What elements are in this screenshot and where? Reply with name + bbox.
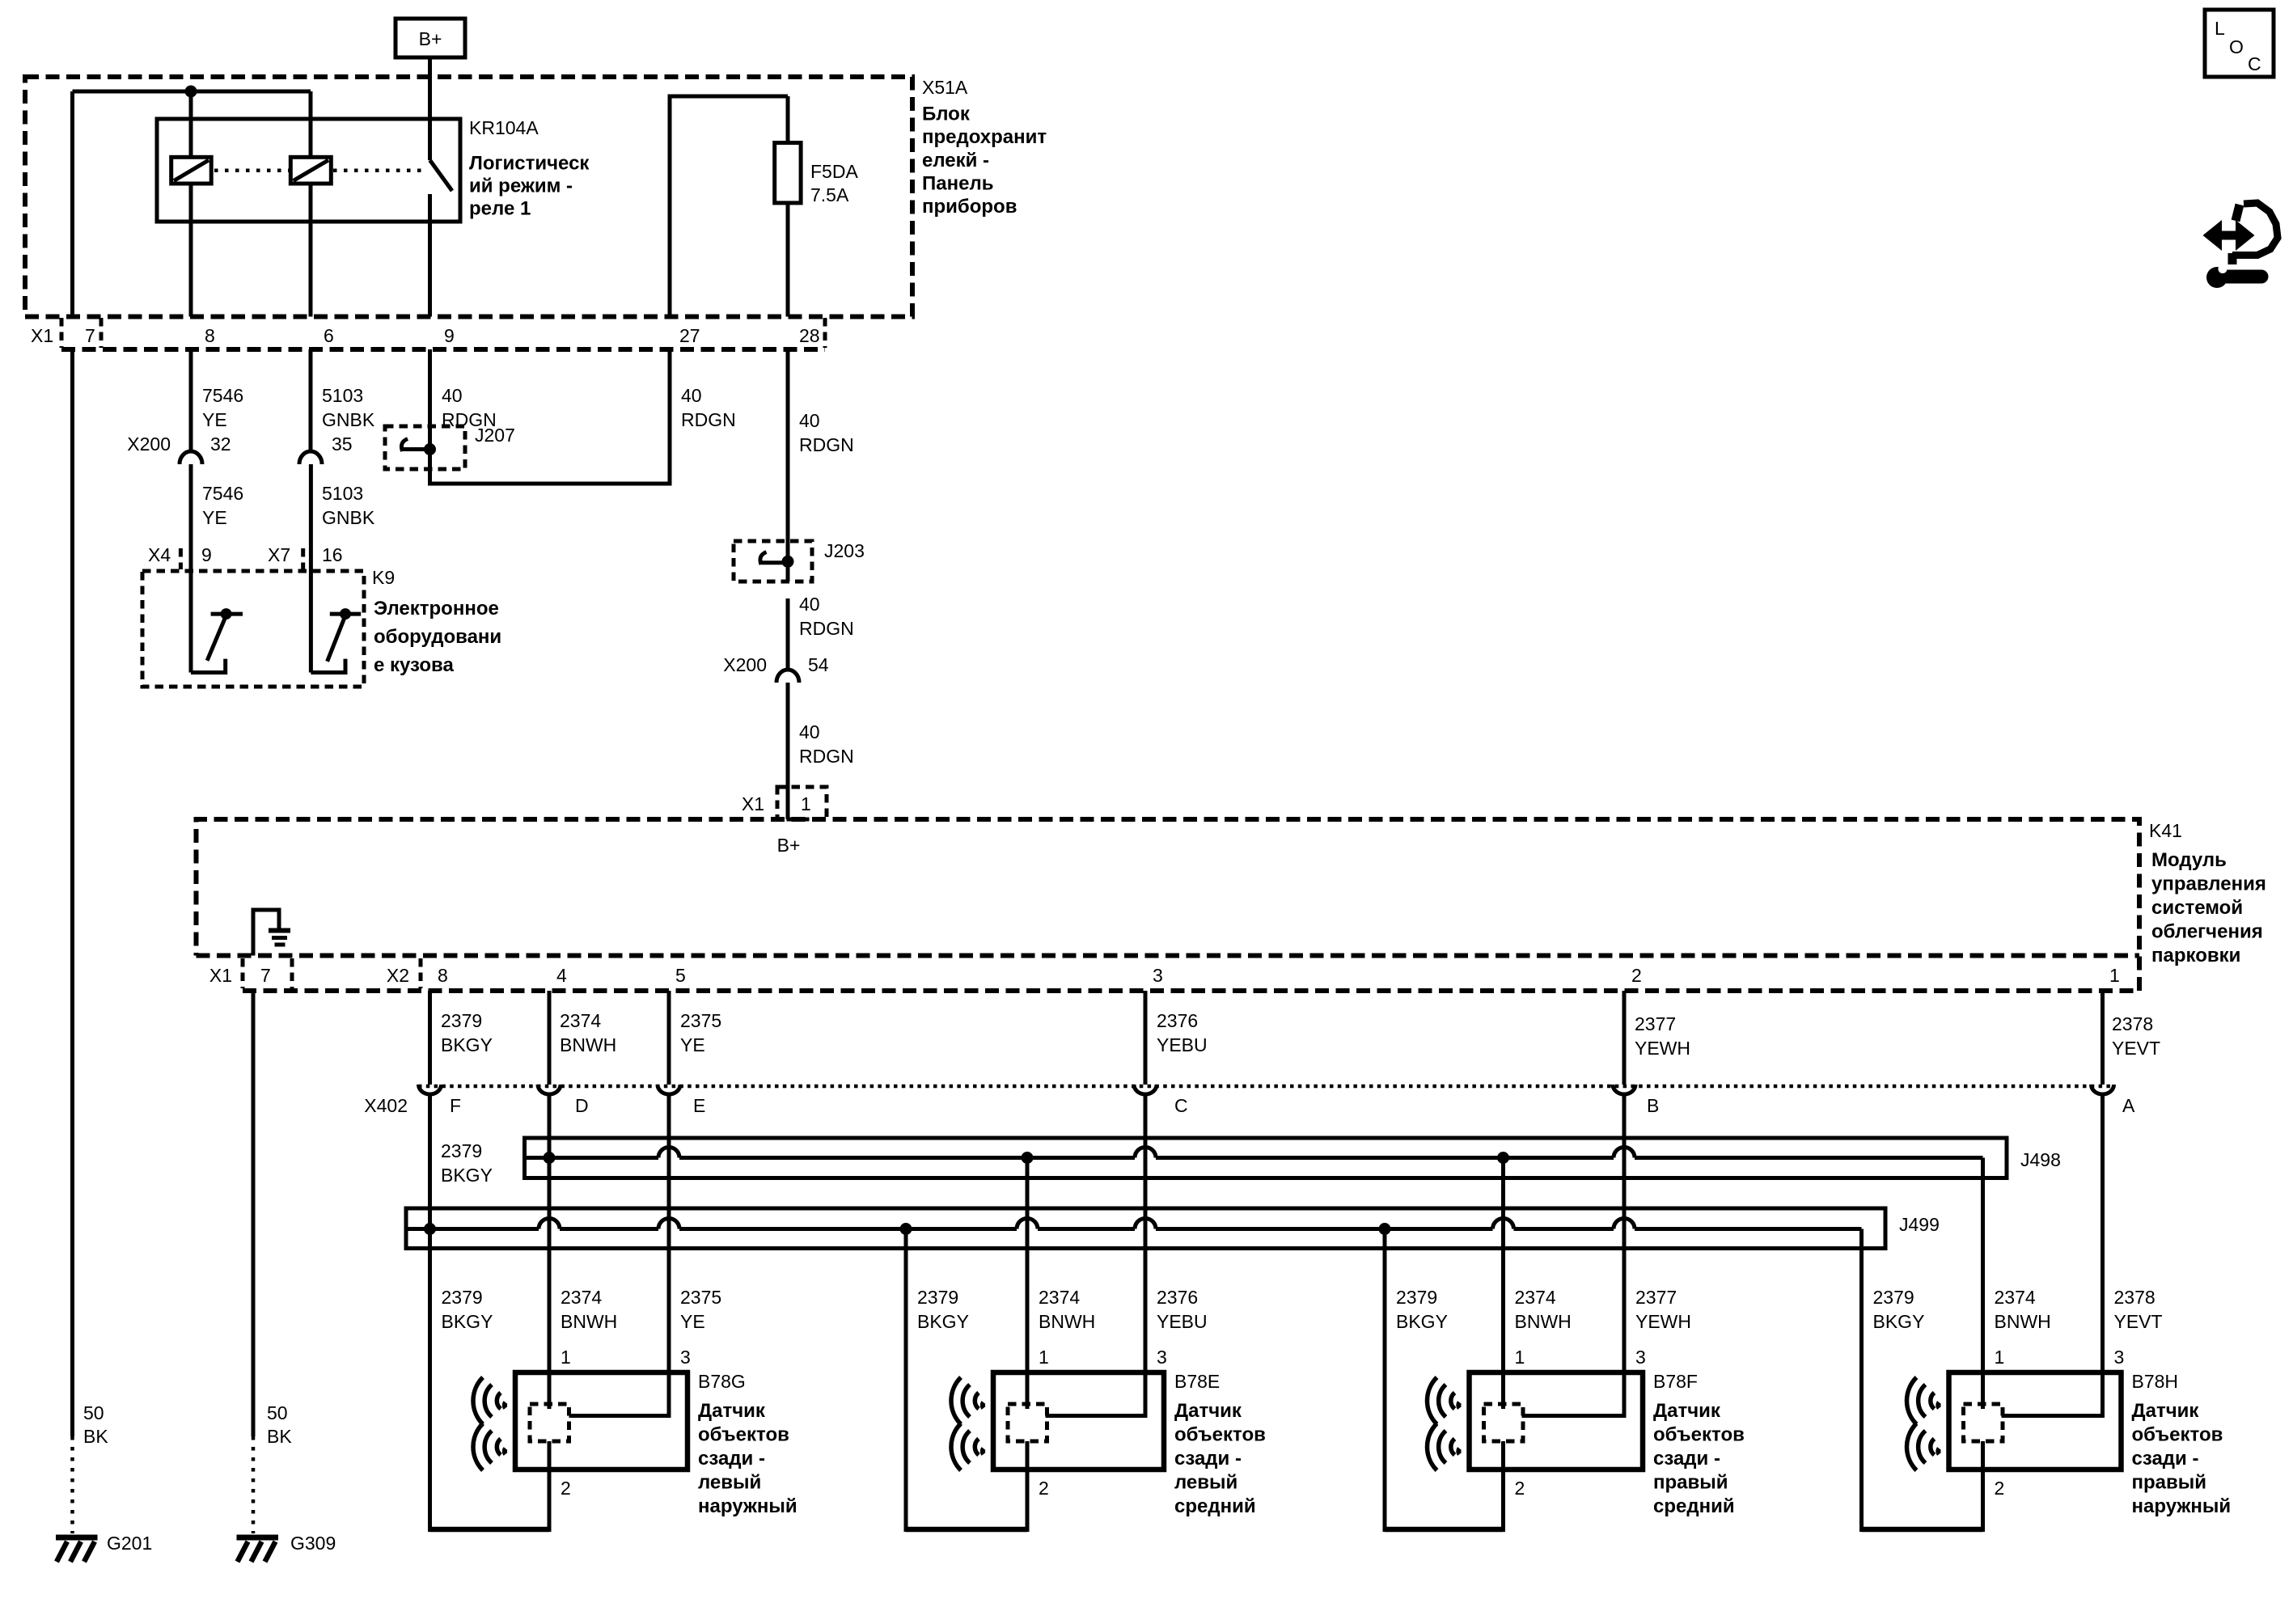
svg-text:парковки: парковки — [2151, 945, 2240, 966]
sensor B78E pin2 wire — [1026, 1441, 1030, 1532]
svg-text:K41: K41 — [2149, 820, 2182, 841]
svg-text:Модуль: Модуль — [2151, 849, 2227, 871]
svg-text:BKGY: BKGY — [1396, 1311, 1448, 1332]
J498 junction dot at 1270 — [1022, 1152, 1034, 1164]
sensor B78E description — [1174, 1400, 1266, 1517]
wire label 2374 BNWH — [560, 1010, 616, 1055]
svg-text:X200: X200 — [127, 433, 171, 455]
svg-text:F5DA: F5DA — [810, 161, 858, 182]
J499 bus hop over wire at 679 — [539, 1219, 560, 1229]
relay mechanical link dotted — [214, 168, 421, 172]
svg-text:2376: 2376 — [1157, 1287, 1198, 1308]
svg-text:J499: J499 — [1899, 1214, 1940, 1235]
svg-text:2: 2 — [1039, 1478, 1049, 1499]
J499 bus hop over wire at 1270 — [1017, 1219, 1038, 1229]
wire D to J498 and sensor1 pin1 — [548, 1093, 552, 1409]
svg-text:K9: K9 — [372, 567, 395, 588]
svg-text:G201: G201 — [107, 1533, 152, 1554]
sensor B78G description — [698, 1400, 797, 1517]
connector X402 pin D arc — [538, 1085, 561, 1094]
svg-text:Датчик: Датчик — [2132, 1400, 2200, 1422]
svg-text:Панель: Панель — [922, 173, 993, 195]
svg-text:реле 1: реле 1 — [469, 198, 531, 220]
connector X200 pin 35 arc — [299, 451, 322, 464]
svg-text:X7: X7 — [268, 544, 290, 565]
wire label 50 BK G201 — [83, 1402, 108, 1447]
ground G201 symbol — [56, 1537, 98, 1562]
wire pin 27 riser — [670, 96, 788, 317]
svg-text:сзади -: сзади - — [698, 1448, 765, 1470]
J499 bus hop over wire at 1416 — [1135, 1219, 1156, 1229]
wire label 2375 YE — [680, 1010, 721, 1055]
sensor B78H bottom return wire — [1862, 1527, 1983, 1533]
wire K41 X2 pin 4 — [548, 991, 552, 1085]
sensor B78E bottom return wire — [906, 1527, 1027, 1533]
svg-text:1: 1 — [1515, 1347, 1525, 1368]
svg-text:RDGN: RDGN — [799, 746, 854, 767]
svg-text:B+: B+ — [419, 28, 442, 49]
svg-text:правый: правый — [1653, 1472, 1728, 1494]
svg-text:X1: X1 — [31, 325, 53, 346]
svg-text:GNBK: GNBK — [322, 409, 375, 430]
svg-text:средний: средний — [1653, 1495, 1735, 1517]
svg-text:2374: 2374 — [1515, 1287, 1556, 1308]
svg-text:7546: 7546 — [202, 483, 243, 504]
svg-text:YEBU: YEBU — [1157, 1034, 1208, 1055]
wire J498 end to sensor4 BNWH — [1981, 1158, 1985, 1410]
svg-text:40: 40 — [681, 385, 702, 406]
svg-text:F: F — [450, 1095, 461, 1116]
svg-text:ий режим -: ий режим - — [469, 176, 573, 197]
svg-text:YEWH: YEWH — [1635, 1038, 1690, 1059]
sensor B78H pin2 wire — [1981, 1441, 1985, 1532]
svg-text:G309: G309 — [290, 1533, 336, 1554]
svg-text:2379: 2379 — [442, 1287, 483, 1308]
svg-text:28: 28 — [799, 325, 820, 346]
wire fuse to pin 28 — [786, 203, 790, 317]
wire coil2 to pin 6 — [309, 184, 313, 317]
wire label 2377 YEWH — [1635, 1013, 1690, 1059]
connector X200 row2 labels — [723, 654, 829, 675]
svg-text:L: L — [2215, 18, 2225, 39]
svg-text:1: 1 — [2109, 965, 2120, 986]
svg-text:X200: X200 — [723, 654, 767, 675]
connector X402 pin A arc — [2092, 1085, 2114, 1094]
wire label 2374 BNWH sensor B78H — [1995, 1287, 2051, 1332]
svg-text:3: 3 — [1157, 1347, 1167, 1368]
svg-text:RDGN: RDGN — [681, 409, 736, 430]
J498 junction dot at 679 — [544, 1152, 556, 1164]
K41 pin row bracket dashes — [243, 958, 421, 988]
svg-text:40: 40 — [799, 721, 820, 742]
wire top bus pins 7-8-6 — [73, 90, 311, 94]
svg-text:средний: средний — [1174, 1495, 1256, 1517]
wire label 2374 BNWH sensor B78G — [561, 1287, 617, 1332]
svg-text:D: D — [575, 1095, 589, 1116]
svg-text:BNWH: BNWH — [1039, 1311, 1095, 1332]
sensor B78F inner connector dashed box — [1484, 1404, 1524, 1441]
wire K41 X2 pin 3 — [1144, 991, 1148, 1085]
svg-text:KR104A: KR104A — [469, 117, 539, 138]
svg-text:E: E — [693, 1095, 705, 1116]
svg-text:40: 40 — [799, 594, 820, 615]
splice J203 — [734, 541, 812, 582]
sensor B78H description — [2132, 1400, 2232, 1517]
wire pin 9 down through J207 — [430, 349, 671, 484]
svg-text:наружный: наружный — [698, 1495, 797, 1517]
sensor B78H sonar wave icon — [1906, 1377, 1939, 1470]
svg-text:4: 4 — [556, 965, 567, 986]
wire label 40 RDGN pin9 — [442, 385, 497, 430]
fuse F5DA — [775, 143, 801, 203]
module K41 label — [2149, 820, 2266, 966]
sensor B78E sonar wave icon — [951, 1377, 984, 1470]
svg-text:2377: 2377 — [1635, 1013, 1676, 1034]
splice pack J498 bus wire — [525, 1156, 1983, 1160]
service icon double arrow — [2203, 220, 2255, 251]
wire label 40 RDGN pin28 — [799, 410, 854, 455]
sensor B78F pin2 wire — [1501, 1441, 1505, 1532]
wire J499 to sensor3 BKGY — [1383, 1229, 1387, 1533]
relay KR104A label — [469, 117, 590, 220]
svg-text:X51A: X51A — [922, 77, 968, 98]
wire label 2379 BKGY sensor B78F — [1396, 1287, 1448, 1332]
connector X402 pin B arc — [1613, 1085, 1635, 1094]
svg-text:приборов: приборов — [922, 196, 1017, 218]
svg-text:9: 9 — [201, 544, 212, 565]
svg-text:7546: 7546 — [202, 385, 243, 406]
splice pack J498 box — [525, 1138, 2007, 1178]
svg-text:16: 16 — [322, 544, 343, 565]
svg-text:3: 3 — [1153, 965, 1163, 986]
svg-text:2379: 2379 — [1873, 1287, 1914, 1308]
ground G309 symbol — [237, 1537, 279, 1562]
K41 pin row dashed lines — [197, 956, 2140, 992]
connector X1 pin1 labels — [742, 793, 811, 814]
wire label 2379 BKGY — [441, 1010, 493, 1055]
svg-text:40: 40 — [442, 385, 463, 406]
svg-text:Датчик: Датчик — [1174, 1400, 1242, 1422]
wire pin 6 to X200 pin 35 — [309, 349, 313, 452]
wire B+ to relay switch — [428, 57, 432, 160]
svg-text:2379: 2379 — [441, 1010, 482, 1031]
relay coil 2 — [290, 157, 331, 184]
wire label 2378 YEVT — [2112, 1013, 2160, 1059]
J499 bus hop over wire at 827 — [658, 1219, 679, 1229]
wire label 2377 YEWH sensor B78F — [1635, 1287, 1691, 1332]
svg-text:YE: YE — [680, 1034, 705, 1055]
svg-text:2374: 2374 — [561, 1287, 602, 1308]
wire J499 end to sensor4 BKGY — [1859, 1229, 1864, 1533]
svg-text:50: 50 — [83, 1402, 104, 1423]
svg-text:2: 2 — [1631, 965, 1642, 986]
svg-text:50: 50 — [267, 1402, 288, 1423]
wire X200-32 to K9 — [189, 464, 193, 673]
wire X200-54 to K41 X1-1 — [786, 683, 790, 819]
svg-text:2377: 2377 — [1635, 1287, 1677, 1308]
relay coil 1 — [171, 157, 212, 184]
svg-text:9: 9 — [444, 325, 455, 346]
svg-text:C: C — [1174, 1095, 1188, 1116]
svg-text:Датчик: Датчик — [1653, 1400, 1721, 1422]
svg-text:J207: J207 — [475, 425, 515, 446]
svg-text:YEBU: YEBU — [1157, 1311, 1208, 1332]
wire label 7546 YE — [202, 385, 243, 430]
svg-text:2375: 2375 — [680, 1010, 721, 1031]
svg-text:елекй -: елекй - — [922, 150, 989, 171]
sensor B78G sonar wave icon — [473, 1377, 506, 1470]
connector X200 pin 54 arc — [776, 670, 799, 683]
svg-text:8: 8 — [438, 965, 448, 986]
svg-text:B78F: B78F — [1653, 1371, 1698, 1392]
svg-text:3: 3 — [1635, 1347, 1646, 1368]
connector X200 row1 labels — [127, 433, 352, 455]
switch in K9 left — [191, 608, 243, 672]
svg-text:YE: YE — [202, 507, 227, 528]
connector X4 X7 bracket dashes — [180, 548, 302, 569]
svg-text:левый: левый — [1174, 1472, 1237, 1494]
svg-text:объектов: объектов — [698, 1424, 789, 1446]
svg-text:системой: системой — [2151, 897, 2243, 919]
svg-text:6: 6 — [324, 325, 334, 346]
svg-text:40: 40 — [799, 410, 820, 431]
svg-text:BKGY: BKGY — [1873, 1311, 1925, 1332]
svg-text:2: 2 — [1515, 1478, 1525, 1499]
svg-text:X402: X402 — [364, 1095, 408, 1116]
module K9 dashed box — [142, 571, 364, 687]
wire relay switch to pin 9 — [428, 194, 432, 317]
wire K41 X1-7 ground run — [252, 991, 256, 1436]
svg-text:1: 1 — [561, 1347, 571, 1368]
svg-text:сзади -: сзади - — [1653, 1448, 1720, 1470]
connector X1 pin row lower dashed line — [61, 347, 825, 352]
wire label 2376 YEBU — [1157, 1010, 1208, 1055]
sensor B78G box — [515, 1372, 687, 1470]
svg-text:управления: управления — [2151, 873, 2266, 895]
splice pack J499 box — [406, 1208, 1885, 1249]
svg-text:B: B — [1647, 1095, 1659, 1116]
svg-text:X4: X4 — [148, 544, 171, 565]
svg-text:объектов: объектов — [2132, 1424, 2223, 1446]
svg-text:1: 1 — [1039, 1347, 1049, 1368]
switch in K9 right — [311, 608, 361, 672]
svg-text:X1: X1 — [209, 965, 232, 986]
wire label 2379 BKGY sensor B78H — [1873, 1287, 1925, 1332]
wire K41 X2 pin 1 — [2101, 991, 2105, 1085]
K41 pin labels — [209, 965, 2120, 986]
wire J498 to sensor3 BNWH — [1501, 1158, 1505, 1410]
svg-text:54: 54 — [808, 654, 829, 675]
svg-text:YE: YE — [202, 409, 227, 430]
junction dot on top bus — [185, 86, 197, 98]
svg-text:BNWH: BNWH — [1995, 1311, 2051, 1332]
svg-text:предохранит: предохранит — [922, 126, 1047, 148]
dotted wire to G201 — [70, 1436, 74, 1533]
svg-text:2379: 2379 — [917, 1287, 958, 1308]
svg-text:2374: 2374 — [560, 1010, 601, 1031]
svg-text:B+: B+ — [777, 835, 801, 856]
J498 bus hop over wire at 2008 — [1614, 1148, 1635, 1158]
fuse block X51A dashed box — [25, 77, 912, 317]
svg-text:B78E: B78E — [1174, 1371, 1220, 1392]
svg-text:5103: 5103 — [322, 385, 363, 406]
svg-text:3: 3 — [680, 1347, 691, 1368]
svg-text:7.5A: 7.5A — [810, 184, 849, 205]
wire label 40 RDGN pin27 — [681, 385, 736, 430]
wire pin 28 to J203 — [786, 349, 790, 582]
svg-text:YE: YE — [680, 1311, 705, 1332]
J499 junction dot at 1712 — [1379, 1223, 1391, 1235]
svg-text:2374: 2374 — [1039, 1287, 1080, 1308]
svg-text:J203: J203 — [824, 540, 865, 561]
svg-text:5: 5 — [675, 965, 686, 986]
svg-text:8: 8 — [205, 325, 215, 346]
splice pack J499 bus wire — [406, 1227, 1862, 1231]
connector X4 X7 labels — [148, 544, 343, 565]
LOC legend box — [2205, 10, 2274, 77]
module K9 label — [372, 567, 501, 676]
svg-text:BK: BK — [83, 1426, 108, 1447]
svg-text:сзади -: сзади - — [1174, 1448, 1242, 1470]
J499 junction dot at 1120 — [900, 1223, 912, 1235]
wire label 40 RDGN below J203 — [799, 594, 854, 639]
relay KR104A box — [157, 119, 460, 222]
power node B+ box — [396, 19, 465, 57]
svg-text:2379: 2379 — [1396, 1287, 1437, 1308]
wire coil1 to pin 8 — [189, 184, 193, 317]
svg-text:BKGY: BKGY — [441, 1165, 493, 1186]
sensor B78G inner connector dashed box — [530, 1404, 569, 1441]
svg-text:1: 1 — [801, 793, 811, 814]
wire J499 to sensor2 BKGY — [904, 1229, 908, 1533]
svg-text:объектов: объектов — [1174, 1424, 1266, 1446]
svg-text:X2: X2 — [387, 965, 409, 986]
svg-text:J498: J498 — [2020, 1149, 2061, 1170]
J499 bus hop over wire at 1858.5 — [1493, 1219, 1514, 1229]
svg-text:BK: BK — [267, 1426, 292, 1447]
svg-text:B78G: B78G — [698, 1371, 746, 1392]
ground symbol inside K41 — [253, 910, 290, 956]
svg-text:2374: 2374 — [1995, 1287, 2036, 1308]
svg-text:BNWH: BNWH — [1515, 1311, 1572, 1332]
wire label 2374 BNWH sensor B78F — [1515, 1287, 1572, 1332]
svg-text:левый: левый — [698, 1472, 761, 1494]
svg-text:2378: 2378 — [2112, 1013, 2153, 1034]
splice J207 — [385, 426, 465, 469]
wire K41 X2 pin 5 — [667, 991, 671, 1085]
connector X402 pin F arc — [419, 1085, 442, 1094]
svg-text:2375: 2375 — [680, 1287, 721, 1308]
svg-text:правый: правый — [2132, 1472, 2207, 1494]
svg-text:A: A — [2122, 1095, 2135, 1116]
J499 bus hop over wire at 2008 — [1614, 1219, 1635, 1229]
svg-text:BKGY: BKGY — [917, 1311, 969, 1332]
wire label 2374 BNWH sensor B78E — [1039, 1287, 1095, 1332]
svg-text:B78H: B78H — [2132, 1371, 2179, 1392]
svg-text:YEVT: YEVT — [2114, 1311, 2163, 1332]
svg-text:1: 1 — [1995, 1347, 2005, 1368]
wire label 2379 BKGY under F — [441, 1140, 493, 1186]
wire J498 to sensor2 BNWH — [1026, 1158, 1030, 1410]
svg-text:RDGN: RDGN — [799, 434, 854, 455]
wire ground run from pin 7 — [70, 349, 74, 1436]
J498 bus hop over wire at 1416 — [1135, 1148, 1156, 1158]
wire label 2378 YEVT sensor B78H — [2114, 1287, 2163, 1332]
sensor B78H inner connector dashed box — [1964, 1404, 2003, 1441]
svg-text:GNBK: GNBK — [322, 507, 375, 528]
svg-text:объектов: объектов — [1653, 1424, 1745, 1446]
connector X200 pin 32 arc — [180, 451, 202, 464]
wire K41 X2 pin 8 — [428, 991, 432, 1085]
wire label 40 RDGN below X200-54 — [799, 721, 854, 767]
wire pin 6 through coil — [309, 91, 313, 159]
sensor B78G pin2 wire — [548, 1441, 552, 1532]
connector X1 pin1 dashed pin box — [777, 787, 827, 819]
wire K41 X2 pin 2 — [1622, 991, 1627, 1085]
wire label 5103 GNBK row2 — [322, 483, 375, 528]
connector X402 pin E arc — [658, 1085, 680, 1094]
svg-text:YEVT: YEVT — [2112, 1038, 2160, 1059]
sensor B78F description — [1653, 1400, 1745, 1517]
svg-text:облегчения: облегчения — [2151, 921, 2263, 943]
wire label 5103 GNBK — [322, 385, 375, 430]
svg-text:RDGN: RDGN — [799, 618, 854, 639]
service icon wrench — [2206, 264, 2261, 288]
svg-text:2379: 2379 — [441, 1140, 482, 1161]
svg-text:3: 3 — [2114, 1347, 2125, 1368]
connector X1 bracket dashes — [61, 318, 825, 348]
sensor B78E box — [993, 1372, 1164, 1470]
svg-text:2376: 2376 — [1157, 1010, 1198, 1031]
svg-text:BNWH: BNWH — [560, 1034, 616, 1055]
svg-text:7: 7 — [260, 965, 271, 986]
service icon hook arrow — [2232, 203, 2278, 256]
connector X402 pin C arc — [1134, 1085, 1157, 1094]
wire label 2379 BKGY sensor B78E — [917, 1287, 969, 1332]
wire E to sensor1 pin3 — [569, 1093, 670, 1416]
sensor B78H box — [1949, 1372, 2122, 1470]
wire pin 8 to X200 pin 32 — [189, 349, 193, 452]
svg-text:32: 32 — [210, 433, 231, 455]
dotted wire to G309 — [252, 1436, 256, 1533]
wire label 2379 BKGY sensor B78G — [442, 1287, 493, 1332]
fuse F5DA label — [810, 161, 858, 205]
wire C to sensor2 pin3 — [1046, 1093, 1146, 1416]
wire to fuse — [786, 96, 790, 143]
wire B to sensor3 pin3 — [1522, 1093, 1625, 1416]
wire J203 to X200-54 — [786, 598, 790, 670]
svg-text:27: 27 — [679, 325, 700, 346]
svg-text:Электронное: Электронное — [374, 598, 499, 620]
wire F to J499 — [428, 1093, 432, 1532]
svg-text:2378: 2378 — [2114, 1287, 2156, 1308]
J499 junction dot at 531.5 — [424, 1223, 436, 1235]
wire label 2375 YE sensor B78G — [680, 1287, 721, 1332]
svg-text:Блок: Блок — [922, 104, 971, 125]
connector X402 dotted line — [418, 1085, 2113, 1089]
svg-text:сзади -: сзади - — [2132, 1448, 2199, 1470]
sensor B78G bottom return wire — [430, 1527, 550, 1533]
svg-text:7: 7 — [85, 325, 95, 346]
J498 junction dot at 1858.5 — [1497, 1152, 1509, 1164]
svg-text:BKGY: BKGY — [442, 1311, 493, 1332]
svg-text:5103: 5103 — [322, 483, 363, 504]
wire label 50 BK G309 — [267, 1402, 292, 1447]
wire A to sensor4 pin3 — [2002, 1093, 2103, 1416]
wire X200-35 to K9 — [309, 464, 313, 673]
relay switch blade — [430, 160, 453, 191]
svg-text:BNWH: BNWH — [561, 1311, 617, 1332]
